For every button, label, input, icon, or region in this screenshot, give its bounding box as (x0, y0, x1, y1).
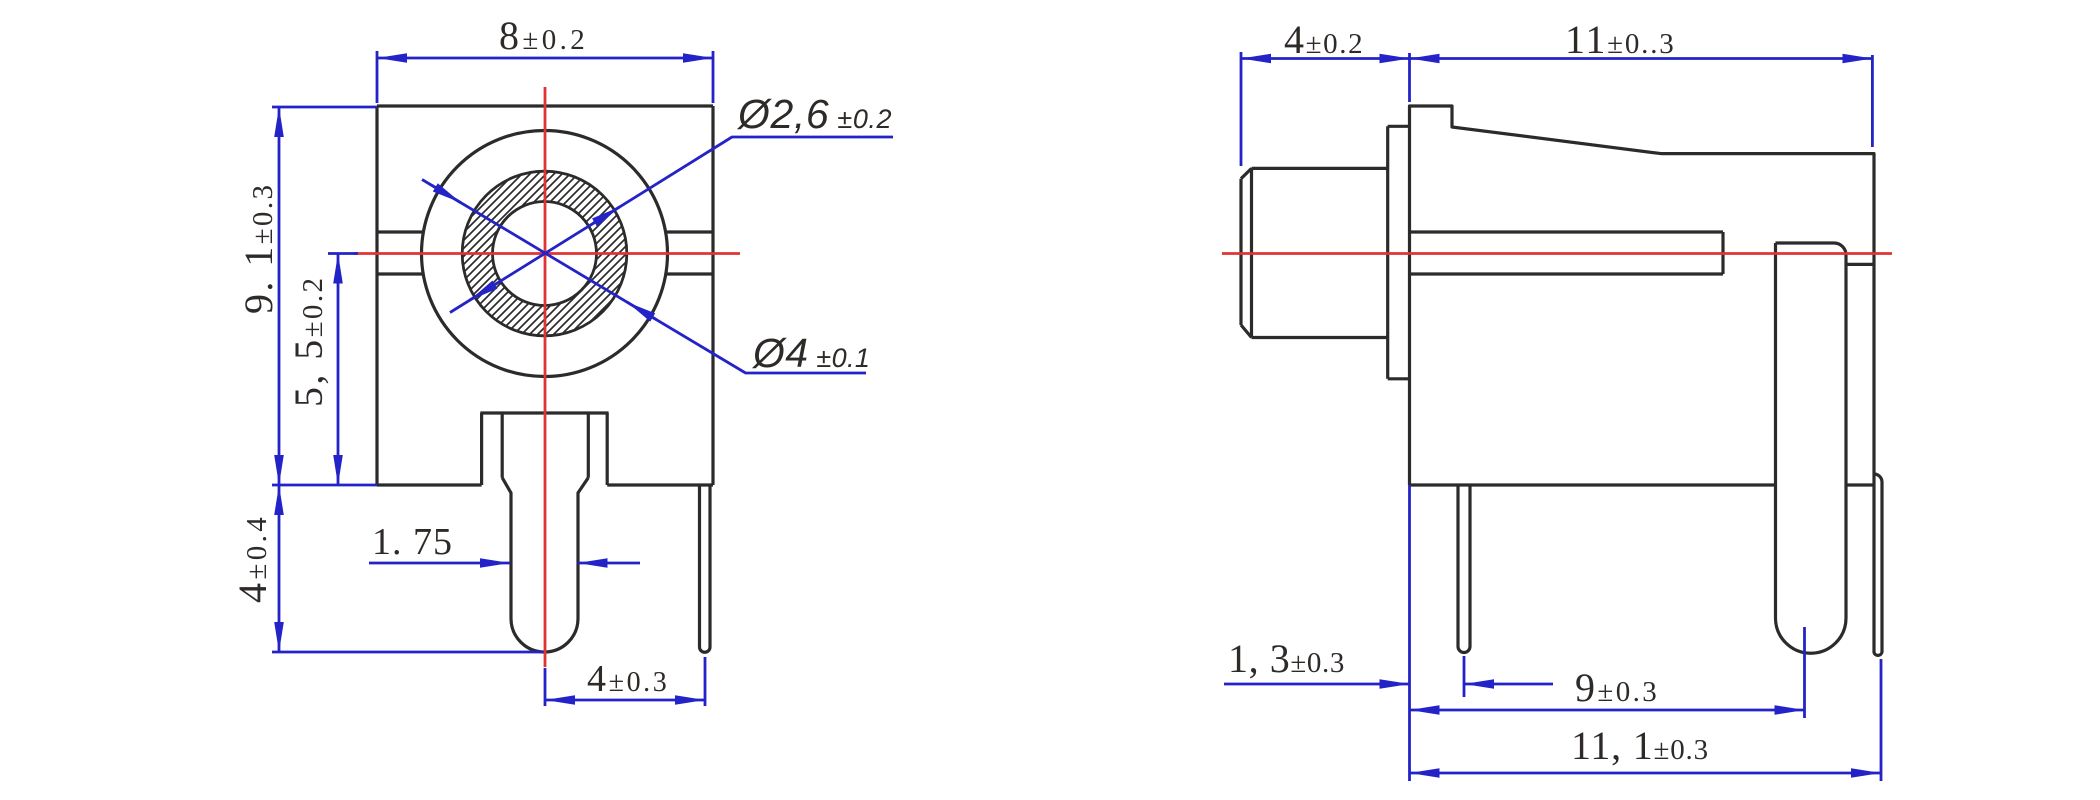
dimension 8±0.2 extension lines (377, 51, 713, 103)
side view: middle contact leg (1776, 243, 1875, 653)
dimension 8±0.2 text (499, 13, 588, 58)
dimension 5,5±0.2 text (286, 276, 331, 407)
front view: right terminal pin (700, 485, 711, 652)
dimension 4±0.3 extension lines (545, 657, 705, 706)
dimension 11,1±0.3 text (1571, 723, 1709, 768)
leader line Ø2,6 (450, 137, 893, 313)
dimension 9±0.3 text (1575, 665, 1659, 710)
dimension 4±0.3 line (545, 699, 705, 702)
front view: outer barrel circle D6 (422, 131, 668, 377)
dimension 1,3±0.3 arrows (1224, 683, 1553, 686)
dimension 9.1±0.3 text (236, 183, 281, 314)
dimension 4±0.4 extension line (272, 651, 543, 654)
front view: vertical red centerline (544, 87, 547, 667)
front view: center pin shoulder (480, 413, 608, 485)
dimension 5,5±0.2 line (337, 254, 340, 486)
dimension 4±0.3 text (587, 658, 669, 700)
label Ø2,6 ±0.2 text (736, 91, 892, 137)
dimension 11,1±0.3 line (1410, 772, 1882, 775)
front view: horizontal red centerline (353, 252, 740, 255)
dimension 9±0.3 extension line (1803, 627, 1806, 718)
side view: barrel cylinder (1241, 168, 1388, 337)
front view: right side slot lines (665, 232, 713, 274)
dimension 4±0.2 text (1284, 17, 1364, 62)
dimension 9±0.3 line (1410, 709, 1805, 712)
front view: center pin with rounded tip (502, 478, 588, 652)
dimension 4±0.4 line (278, 485, 281, 652)
dimension 1,3±0.3 text (1228, 636, 1345, 681)
side view: flange plate (1388, 126, 1410, 378)
svg-text:1. 75: 1. 75 (372, 521, 453, 563)
leader line Ø4 (422, 180, 866, 374)
front view: connector body outline (377, 106, 713, 485)
dimension 9.1±0.3 line (278, 107, 281, 485)
side view: left terminal pin (1458, 485, 1470, 653)
dimension 9.1±0.3 extension lines (272, 107, 377, 485)
leader Ø4 arrows (432, 185, 656, 319)
dimension 1.75 arrows (369, 562, 640, 565)
dimension 11±0..3 extension line (1871, 55, 1874, 147)
front view: left side slot lines (377, 232, 424, 274)
leader Ø2,6 arrows (470, 207, 621, 301)
side view: red centerline (1222, 252, 1892, 255)
dimension 4±0.2 extension lines (1241, 52, 1410, 166)
dimension 4±0.4 text (230, 514, 275, 603)
dimension 4±0.2 line (1241, 57, 1410, 60)
dimension 1.75 text (372, 521, 453, 563)
side view: main body outline (1410, 106, 1875, 485)
dimension 5,5±0.2 extension tick (328, 252, 358, 255)
side view: center pin horizontal (1410, 232, 1724, 274)
dimension 8±0.2 line (377, 57, 713, 60)
dimension 1,3±0.3 extension lines (1410, 485, 1465, 781)
label Ø4 ±0.1 text (751, 330, 870, 376)
dimension 11,1±0.3 extension line (1880, 659, 1883, 781)
side view: right terminal pin (1874, 474, 1882, 655)
dimension 11±0..3 text (1565, 17, 1676, 62)
front view: hatched contact ring (D4 outer / D2.6 inner) (462, 171, 627, 336)
dimension 11±0..3 line (1410, 57, 1873, 60)
